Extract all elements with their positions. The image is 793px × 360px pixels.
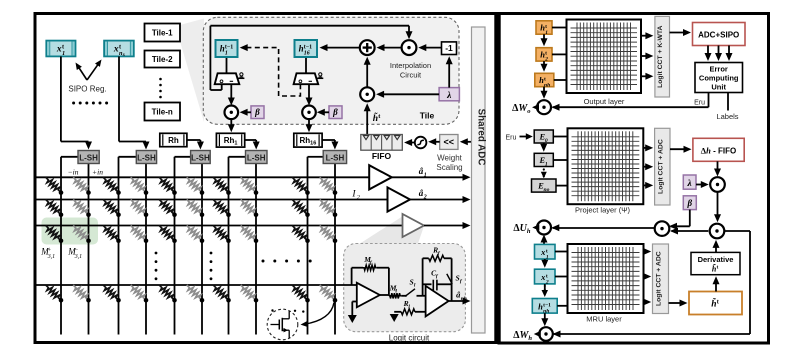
svg-text:+in: +in (92, 168, 103, 177)
svg-text:Eru: Eru (506, 134, 517, 141)
svg-text:FIFO: FIFO (372, 151, 392, 161)
svg-text:Tile-n: Tile-n (152, 108, 173, 117)
svg-text:Tile: Tile (420, 111, 435, 121)
svg-text:Logit CCT + ADC: Logit CCT + ADC (656, 251, 663, 306)
svg-text:no: no (544, 187, 550, 193)
svg-text:Derivative: Derivative (698, 255, 734, 264)
svg-text:1: 1 (62, 50, 65, 57)
svg-text:1: 1 (225, 51, 228, 57)
svg-text:λ: λ (446, 91, 451, 101)
svg-text:-1: -1 (445, 43, 453, 53)
svg-text:Shared ADC: Shared ADC (475, 109, 486, 166)
svg-text:L-SH: L-SH (191, 153, 210, 162)
svg-text:L-SH: L-SH (137, 153, 156, 162)
svg-text:Logit CCT + K-WTA: Logit CCT + K-WTA (657, 25, 664, 87)
svg-text:3,1: 3,1 (47, 254, 55, 260)
svg-text:1: 1 (545, 162, 548, 168)
svg-text:t−1: t−1 (225, 44, 233, 50)
svg-text:Rh: Rh (168, 136, 179, 145)
svg-text:16: 16 (304, 51, 310, 57)
svg-text:Tile-2: Tile-2 (152, 55, 173, 64)
svg-text:x: x (122, 53, 126, 58)
svg-text:t: t (717, 265, 719, 271)
svg-text:Interpolation: Interpolation (390, 61, 431, 70)
svg-text:1: 1 (545, 30, 548, 36)
svg-text:L-SH: L-SH (247, 153, 266, 162)
svg-text:Output layer: Output layer (584, 97, 625, 106)
svg-text:Weight: Weight (437, 154, 463, 163)
svg-text:L-SH: L-SH (326, 153, 345, 162)
svg-text:β: β (686, 198, 692, 208)
svg-text:Circuit: Circuit (400, 71, 422, 80)
svg-text:t−1: t−1 (304, 44, 312, 50)
svg-text:1: 1 (546, 254, 549, 260)
svg-text:−in: −in (68, 168, 79, 177)
svg-text:β: β (332, 107, 338, 117)
svg-text:Labels: Labels (716, 112, 738, 121)
svg-text:SIPO Reg.: SIPO Reg. (68, 85, 106, 94)
svg-text:<<: << (444, 137, 455, 147)
svg-text:ADC+SIPO: ADC+SIPO (698, 31, 739, 40)
svg-text:Project layer (Ψ): Project layer (Ψ) (575, 206, 631, 215)
svg-text:2: 2 (423, 195, 427, 201)
svg-text:Logit CCT + ADC: Logit CCT + ADC (657, 139, 664, 194)
svg-text:Eru: Eru (694, 100, 705, 107)
svg-text:MRU layer: MRU layer (586, 315, 622, 324)
svg-text:0: 0 (545, 138, 548, 144)
svg-text:Computing: Computing (699, 74, 739, 83)
svg-text:L-SH: L-SH (79, 153, 98, 162)
svg-text:nh: nh (544, 82, 550, 88)
svg-text:λ: λ (686, 179, 691, 189)
svg-text:x: x (56, 45, 62, 55)
svg-text:β: β (254, 107, 260, 117)
svg-text:Scaling: Scaling (436, 163, 462, 172)
svg-text:Tile-1: Tile-1 (152, 29, 173, 38)
svg-text:Error: Error (710, 65, 728, 74)
svg-text:1: 1 (424, 172, 427, 178)
svg-text:Δh - FIFO: Δh - FIFO (701, 146, 736, 156)
svg-text:Logit circuit: Logit circuit (389, 334, 430, 343)
svg-text:nh: nh (461, 296, 467, 302)
svg-text:Unit: Unit (711, 83, 726, 92)
svg-text:3,1: 3,1 (74, 254, 82, 260)
svg-text:x: x (113, 45, 119, 55)
